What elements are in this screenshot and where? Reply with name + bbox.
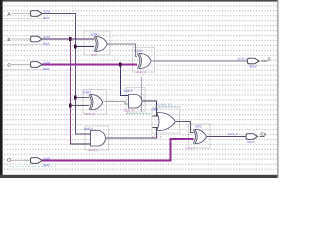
svg-text:XLXN: XLXN — [43, 61, 50, 64]
svg-text:OBUF: OBUF — [247, 140, 256, 144]
svg-text:XLXN_12: XLXN_12 — [157, 102, 172, 106]
svg-text:S: S — [268, 57, 271, 62]
svg-text:IBUF: IBUF — [43, 163, 50, 167]
svg-text:XLXN: XLXN — [43, 157, 50, 160]
svg-text:B: B — [8, 37, 11, 42]
svg-text:XLXN_6: XLXN_6 — [237, 58, 248, 61]
svg-text:OR2: OR2 — [152, 107, 159, 111]
svg-text:XLXN: XLXN — [43, 36, 50, 39]
svg-text:AND2: AND2 — [124, 89, 133, 93]
svg-text:Ci: Ci — [7, 158, 11, 163]
svg-text:Co: Co — [261, 132, 267, 137]
svg-text:XLXN: XLXN — [43, 10, 50, 13]
svg-text:XLXI_2: XLXI_2 — [136, 70, 146, 74]
svg-text:XLXI_7: XLXI_7 — [185, 146, 195, 150]
svg-text:XLXI_4: XLXI_4 — [124, 109, 134, 113]
svg-text:XOR2: XOR2 — [83, 90, 92, 94]
svg-text:IBUF: IBUF — [43, 16, 50, 20]
svg-text:XLXI_5: XLXI_5 — [88, 148, 98, 152]
svg-text:XLXN_8: XLXN_8 — [228, 133, 239, 136]
svg-text:XLXI_6: XLXI_6 — [152, 135, 162, 139]
svg-text:XOR2: XOR2 — [91, 33, 100, 37]
svg-text:XLXI_3: XLXI_3 — [85, 112, 95, 116]
svg-text:OR2: OR2 — [195, 125, 202, 129]
svg-text:IBUF: IBUF — [43, 67, 50, 71]
svg-text:XOR2: XOR2 — [134, 49, 143, 53]
svg-text:IBUF: IBUF — [43, 41, 50, 45]
svg-text:OBUF: OBUF — [249, 65, 258, 69]
svg-text:AND2: AND2 — [84, 127, 93, 131]
svg-text:XLX: XLX — [91, 53, 97, 57]
svg-text:A: A — [8, 12, 11, 17]
